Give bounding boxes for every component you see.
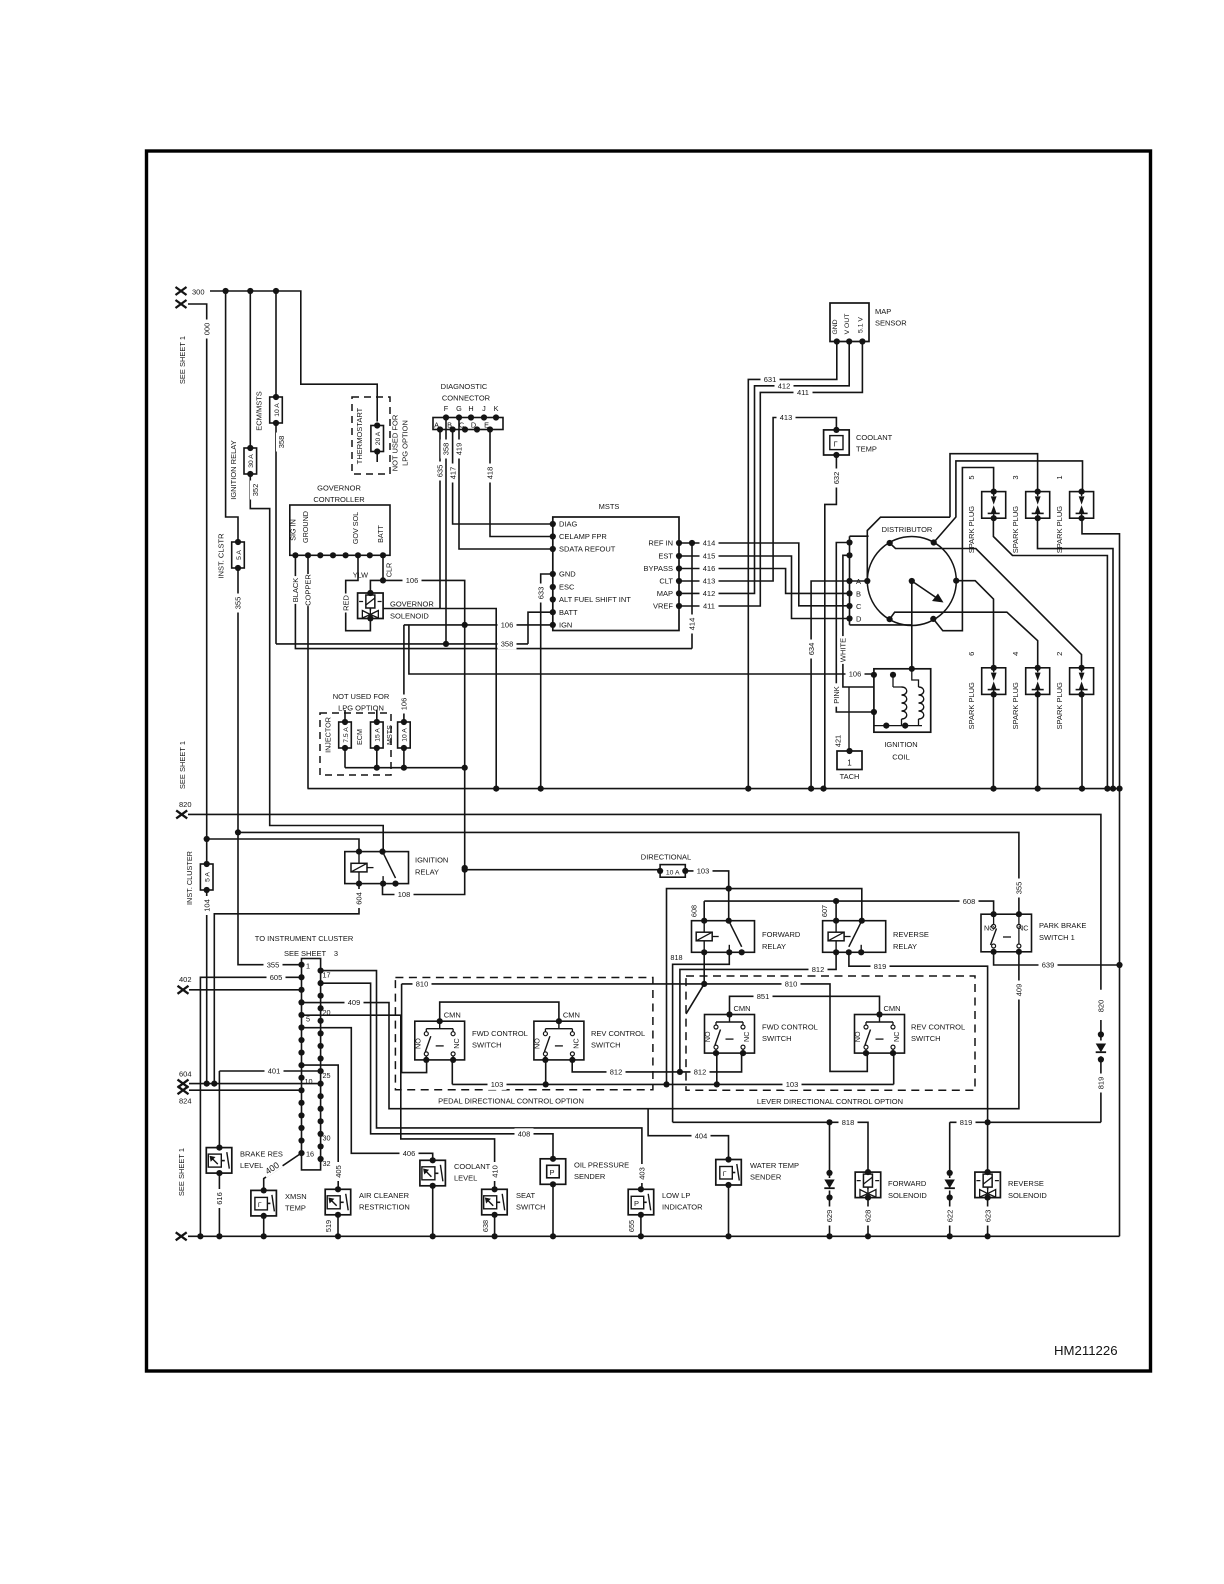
fuse 20 A thermostart	[371, 426, 384, 452]
svg-text:812: 812	[610, 1068, 623, 1077]
svg-text:414: 414	[703, 539, 716, 548]
dashed box lever directional control option	[686, 976, 975, 1090]
svg-text:B: B	[856, 590, 861, 599]
svg-text:BATT: BATT	[559, 608, 578, 617]
wire 631 map ground to bus	[748, 342, 837, 789]
svg-text:622: 622	[945, 1210, 954, 1223]
svg-text:OIL PRESSURE: OIL PRESSURE	[574, 1161, 629, 1170]
wire 639 park brake to ground	[994, 952, 1120, 965]
svg-text:FWD CONTROL: FWD CONTROL	[472, 1029, 528, 1038]
svg-text:LEVEL: LEVEL	[240, 1161, 263, 1170]
fuse 15 A ecm	[376, 710, 378, 722]
wire ignition relay feed	[249, 291, 251, 448]
wire spark plug 6 lead	[956, 581, 993, 668]
ground bus bottom	[188, 1235, 1120, 1237]
svg-text:TEMP: TEMP	[285, 1204, 306, 1213]
wire gov sol RED loop	[346, 555, 371, 630]
ignition relay	[345, 852, 409, 884]
wire 358 fuse drop	[275, 423, 277, 644]
svg-text:GOVERNOR: GOVERNOR	[317, 484, 361, 493]
node ground bus bottom X	[176, 1232, 187, 1240]
svg-text:YLW: YLW	[353, 571, 368, 580]
wire 406 pin 6 to coolant level	[302, 1028, 433, 1161]
svg-text:616: 616	[215, 1192, 224, 1205]
brake res level sensor	[206, 1148, 232, 1174]
governor solenoid	[358, 593, 384, 619]
svg-text:GND: GND	[559, 570, 576, 579]
svg-text:NO: NO	[984, 924, 995, 933]
msts pin REF IN	[676, 540, 682, 546]
svg-text:RELAY: RELAY	[415, 868, 439, 877]
svg-text:819: 819	[1097, 1077, 1106, 1090]
svg-text:ECM/MSTS: ECM/MSTS	[255, 391, 264, 431]
svg-text:INJECTOR: INJECTOR	[324, 717, 333, 753]
svg-text:CONTROLLER: CONTROLLER	[313, 495, 365, 504]
svg-text:415: 415	[703, 552, 716, 561]
wire 810 lever branch	[704, 984, 867, 1072]
wire xmsn temp ground	[263, 1216, 265, 1236]
msts pin VREF	[676, 603, 682, 609]
wire spark plug 1 ground	[1082, 518, 1120, 788]
svg-text:G: G	[456, 404, 462, 413]
wire 607 reverse coil drop	[835, 901, 837, 921]
svg-text:519: 519	[324, 1220, 333, 1232]
svg-text:HM211226: HM211226	[1054, 1343, 1118, 1358]
svg-text:SEE SHEET 1: SEE SHEET 1	[178, 336, 187, 384]
svg-text:AIR CLEANER: AIR CLEANER	[359, 1191, 410, 1200]
svg-text:403: 403	[638, 1167, 647, 1180]
svg-text:106: 106	[849, 670, 862, 679]
wire pedal 103	[451, 1060, 453, 1085]
svg-text:VREF: VREF	[653, 602, 673, 611]
svg-text:SWITCH: SWITCH	[472, 1041, 502, 1050]
svg-text:413: 413	[780, 413, 793, 422]
svg-text:401: 401	[268, 1067, 281, 1076]
svg-text:409: 409	[348, 998, 361, 1007]
svg-text:358: 358	[277, 436, 286, 449]
svg-text:2: 2	[1055, 652, 1064, 656]
svg-text:TACH: TACH	[840, 772, 860, 781]
svg-text:CELAMP FPR: CELAMP FPR	[559, 532, 607, 541]
wire spark plug 1 lead	[934, 461, 1083, 543]
msts pin MAP	[676, 590, 682, 596]
wire 819 run	[950, 1121, 1101, 1123]
svg-text:SENDER: SENDER	[750, 1173, 782, 1182]
svg-text:16: 16	[306, 1150, 314, 1159]
tach connector	[837, 751, 862, 770]
svg-text:NC: NC	[1018, 924, 1028, 933]
svg-text:BLACK: BLACK	[291, 578, 300, 603]
svg-text:SOLENOID: SOLENOID	[390, 612, 429, 621]
msts pin CLT	[676, 578, 682, 584]
svg-text:629: 629	[825, 1210, 834, 1223]
msts controller box	[553, 517, 679, 631]
seat switch sensor	[482, 1189, 508, 1215]
svg-text:106: 106	[406, 576, 419, 585]
svg-text:ECM: ECM	[355, 729, 364, 745]
wire 820 diode to 819	[1100, 1020, 1102, 1122]
svg-text:DIAGNOSTIC: DIAGNOSTIC	[441, 382, 488, 391]
svg-text:COPPER: COPPER	[304, 574, 313, 606]
svg-text:D: D	[856, 615, 862, 624]
wire 300 bus to thermostart	[210, 291, 377, 422]
wire 103 branch to switches	[667, 889, 729, 1085]
park brake switch 1	[981, 914, 1032, 952]
wire 810 pedal branch	[402, 984, 705, 1073]
svg-text:PARK BRAKE: PARK BRAKE	[1039, 921, 1086, 930]
svg-text:417: 417	[448, 467, 457, 480]
wire 106 ign run	[404, 624, 553, 626]
wire 410 pin 5 to seat switch	[302, 1015, 495, 1189]
fuse 30 A ignition relay	[244, 448, 257, 474]
to instrument cluster connector	[302, 959, 321, 1170]
svg-text:413: 413	[703, 577, 716, 586]
svg-text:410: 410	[490, 1165, 499, 1178]
reverse relay	[823, 921, 886, 953]
fuse 10 A ecm/msts	[270, 397, 283, 423]
diagnostic connector	[433, 418, 503, 430]
msts pin GND	[550, 571, 556, 577]
svg-text:NO: NO	[853, 1031, 862, 1042]
ground bus engine	[308, 788, 1120, 790]
svg-text:EST: EST	[658, 552, 673, 561]
svg-text:CLR: CLR	[385, 563, 394, 578]
msts pin BYPASS	[676, 565, 682, 571]
wire spark plug 5 ground	[993, 518, 1107, 788]
wire ecm/msts feed	[275, 291, 277, 397]
svg-text:BYPASS: BYPASS	[644, 564, 673, 573]
svg-text:F: F	[444, 404, 449, 413]
wire 616 brake res ground	[218, 1173, 220, 1236]
svg-text:404: 404	[695, 1131, 708, 1140]
svg-text:5 A: 5 A	[205, 872, 212, 882]
wire 405 pin 9 to air cleaner	[302, 1065, 339, 1189]
svg-text:32: 32	[323, 1159, 331, 1168]
svg-text:BATT: BATT	[376, 524, 385, 542]
wire 000 / 104 instrument cluster feed	[188, 304, 207, 864]
svg-text:SWITCH: SWITCH	[591, 1041, 621, 1050]
svg-text:LOW LP: LOW LP	[662, 1191, 690, 1200]
node 824 off-sheet X	[178, 1086, 189, 1094]
svg-text:411: 411	[703, 602, 715, 611]
svg-text:H: H	[468, 404, 473, 413]
svg-text:608: 608	[963, 897, 976, 906]
fwd control switch (pedal)	[415, 1021, 465, 1060]
msts pin CELAMP FPR	[550, 533, 556, 539]
diode 629 branch	[829, 1122, 831, 1236]
wire spark plug 4 lead	[890, 612, 1038, 668]
svg-text:4: 4	[1011, 652, 1020, 656]
wire lever rev nc to 103	[893, 1053, 895, 1084]
svg-text:CMN: CMN	[734, 1004, 751, 1013]
svg-text:CMN: CMN	[444, 1011, 461, 1020]
svg-text:633: 633	[536, 587, 545, 600]
wire 104 to ignition relay coil	[207, 839, 359, 852]
svg-text:CLT: CLT	[659, 577, 673, 586]
svg-text:628: 628	[864, 1210, 873, 1223]
wire 413 clt to coolant temp	[679, 418, 836, 582]
svg-text:418: 418	[486, 467, 495, 480]
coil internal wiring	[893, 669, 919, 687]
svg-text:INST. CLSTR: INST. CLSTR	[217, 533, 226, 579]
wire 818 run to forward solenoid	[673, 1122, 868, 1172]
coolant level sensor	[420, 1160, 446, 1186]
svg-text:10: 10	[305, 1077, 313, 1086]
svg-text:J: J	[482, 404, 486, 413]
wire 415 est to distributor D	[679, 556, 850, 619]
svg-text:812: 812	[694, 1068, 707, 1077]
svg-text:605: 605	[270, 973, 283, 982]
wire spark plug 4 ground	[1037, 694, 1039, 788]
svg-text:CMN: CMN	[884, 1004, 901, 1013]
wire 400 xmsn temp to pin 16	[264, 1153, 302, 1190]
fwd control switch (lever)	[705, 1015, 755, 1054]
svg-text:CMN: CMN	[563, 1011, 580, 1020]
wire 409 park brake NC	[302, 952, 1019, 1109]
svg-text:IGNITION: IGNITION	[415, 856, 448, 865]
wire pedal rev no to 103	[545, 1060, 547, 1085]
svg-text:103: 103	[697, 867, 710, 876]
wire 418 pin E to msts celamp	[490, 430, 553, 537]
svg-text:SPARK PLUG: SPARK PLUG	[1011, 506, 1020, 554]
svg-text:355: 355	[267, 960, 280, 969]
wire 411 vref	[679, 342, 862, 607]
svg-text:3: 3	[334, 949, 338, 958]
svg-text:635: 635	[436, 465, 445, 478]
svg-text:358: 358	[442, 443, 451, 456]
wire 628 forward solenoid ground	[867, 1198, 869, 1237]
svg-text:NC: NC	[571, 1038, 580, 1048]
wire governor solenoid ground	[383, 609, 496, 789]
msts pin IGN	[550, 622, 556, 628]
svg-text:NC: NC	[892, 1032, 901, 1042]
svg-text:1: 1	[306, 962, 310, 971]
wire msts gnd 633 to bus	[541, 574, 553, 789]
svg-text:SEAT: SEAT	[516, 1191, 535, 1200]
svg-text:632: 632	[832, 472, 841, 485]
svg-text:820: 820	[179, 800, 192, 809]
svg-text:IGNITION RELAY: IGNITION RELAY	[229, 440, 238, 499]
wire 820 bus	[188, 814, 1101, 989]
wire oil pressure ground	[552, 1184, 554, 1236]
fuse 5 A inst clstr	[232, 542, 245, 568]
svg-text:NO: NO	[532, 1038, 541, 1049]
wire 108 relay output loop	[383, 870, 465, 895]
svg-text:818: 818	[842, 1118, 855, 1127]
svg-text:XMSN: XMSN	[285, 1192, 307, 1201]
svg-text:819: 819	[960, 1118, 973, 1127]
svg-text:NOT USED FOR: NOT USED FOR	[391, 414, 400, 471]
svg-text:K: K	[494, 404, 499, 413]
wire 412 map signal	[679, 342, 849, 594]
svg-text:607: 607	[820, 905, 829, 917]
spark plug 5	[982, 492, 1006, 519]
svg-text:SWITCH: SWITCH	[911, 1034, 941, 1043]
svg-text:DIRECTIONAL: DIRECTIONAL	[641, 853, 691, 862]
wire spark plug 2 ground	[1081, 694, 1083, 788]
svg-text:ALT FUEL SHIFT INT: ALT FUEL SHIFT INT	[559, 595, 631, 604]
svg-text:COIL: COIL	[892, 753, 910, 762]
svg-text:NO: NO	[413, 1038, 422, 1049]
distributor module box	[850, 536, 912, 625]
svg-text:103: 103	[491, 1080, 504, 1089]
svg-text:810: 810	[785, 980, 798, 989]
map sensor	[830, 303, 869, 342]
svg-text:6: 6	[967, 652, 976, 656]
wire lever option diagonal	[686, 984, 704, 1014]
svg-text:Γ: Γ	[834, 440, 838, 449]
svg-text:SOLENOID: SOLENOID	[1008, 1191, 1047, 1200]
svg-text:355: 355	[1015, 882, 1024, 895]
svg-text:IGN: IGN	[559, 621, 572, 630]
svg-text:820: 820	[1097, 1000, 1106, 1013]
svg-text:SPARK PLUG: SPARK PLUG	[1011, 682, 1020, 730]
svg-text:30 A: 30 A	[248, 454, 255, 468]
svg-text:TEMP: TEMP	[856, 445, 877, 454]
dashed box not used for LPG option (injector/ecm fuses)	[320, 713, 391, 775]
svg-text:SEE SHEET 1: SEE SHEET 1	[178, 741, 187, 789]
svg-text:300: 300	[192, 288, 205, 297]
wire 604 relay coil return	[214, 884, 359, 1084]
svg-text:Γ: Γ	[258, 1202, 262, 1209]
svg-text:SPARK PLUG: SPARK PLUG	[1055, 506, 1064, 554]
wire 818 forward relay output	[673, 952, 730, 1122]
svg-text:SEE SHEET: SEE SHEET	[284, 949, 327, 958]
svg-text:GOV SOL: GOV SOL	[351, 512, 360, 544]
svg-text:608: 608	[690, 905, 699, 917]
svg-text:P: P	[550, 1168, 555, 1177]
low lp indicator	[628, 1189, 654, 1215]
wire 402 to pin 3	[189, 989, 302, 991]
diode 622 branch	[949, 1122, 951, 1236]
svg-text:SEE SHEET 1: SEE SHEET 1	[177, 1148, 186, 1196]
svg-text:TO INSTRUMENT CLUSTER: TO INSTRUMENT CLUSTER	[255, 934, 354, 943]
distributor cap circle	[867, 537, 956, 626]
svg-text:604: 604	[179, 1070, 192, 1079]
wire 419 pin G to msts sdata	[459, 418, 553, 550]
wire WHITE	[843, 555, 850, 687]
svg-text:414: 414	[688, 618, 697, 631]
wire 358 run	[276, 643, 528, 645]
svg-text:25: 25	[323, 1071, 331, 1080]
svg-text:INST. CLUSTER: INST. CLUSTER	[185, 851, 194, 905]
water temp sender	[716, 1160, 742, 1186]
rev control switch (lever)	[855, 1015, 905, 1054]
svg-text:IGNITION: IGNITION	[884, 740, 917, 749]
wire 604 to pin 26	[189, 1083, 321, 1085]
wire 106 msts fuse riser	[403, 625, 405, 722]
svg-text:WATER TEMP: WATER TEMP	[750, 1161, 799, 1170]
svg-text:402: 402	[179, 975, 192, 984]
svg-text:SOLENOID: SOLENOID	[888, 1191, 927, 1200]
svg-text:409: 409	[1015, 984, 1024, 997]
svg-text:DISTRIBUTOR: DISTRIBUTOR	[882, 525, 933, 534]
wire BLACK 414 sig in to msts ref in return	[295, 555, 692, 648]
wire YLW solenoid top link	[370, 580, 383, 593]
wire water temp ground	[728, 1185, 730, 1236]
spark plug 1	[1070, 492, 1094, 519]
wire 106 ignition coil feed	[409, 625, 874, 674]
wire 417 pin B to msts diag	[453, 430, 553, 525]
svg-text:FORWARD: FORWARD	[888, 1179, 927, 1188]
svg-text:NC: NC	[742, 1032, 751, 1042]
svg-text:1: 1	[847, 759, 852, 768]
coolant temp sensor	[824, 430, 850, 455]
wire 355 to cluster connector pin 1	[238, 568, 302, 965]
svg-text:5: 5	[967, 476, 976, 480]
forward relay	[692, 921, 755, 953]
svg-text:BRAKE RES: BRAKE RES	[240, 1150, 283, 1159]
wire 358 pin F	[445, 418, 447, 644]
wire 812 lever fwd nc	[680, 1053, 742, 1072]
fuse 5 A inst cluster	[200, 864, 213, 890]
wire 655 low lp ground	[640, 1215, 642, 1237]
svg-text:FORWARD: FORWARD	[762, 930, 801, 939]
wire 638 seat switch ground	[494, 1215, 496, 1237]
svg-text:638: 638	[481, 1220, 490, 1232]
svg-text:RELAY: RELAY	[762, 942, 786, 951]
governor controller box	[290, 505, 390, 555]
msts pin EST	[676, 553, 682, 559]
svg-text:LEVEL: LEVEL	[454, 1174, 477, 1183]
svg-text:416: 416	[703, 564, 716, 573]
msts pin BATT	[550, 609, 556, 615]
rotor arrow	[912, 581, 936, 598]
svg-text:MSTS: MSTS	[599, 502, 620, 511]
svg-text:COOLANT: COOLANT	[856, 433, 893, 442]
rev control switch (pedal)	[534, 1021, 584, 1060]
dashed box pedal directional control option	[395, 978, 653, 1090]
msts pin ALT FUEL SHIFT INT	[550, 596, 556, 602]
wire 819 reverse relay output	[849, 952, 988, 1172]
svg-text:1: 1	[1055, 476, 1064, 480]
fuse 7.5 A injector	[344, 710, 346, 722]
svg-text:408: 408	[518, 1130, 531, 1139]
svg-text:MSTS: MSTS	[385, 725, 394, 745]
wire 851 lever cmn bridge	[730, 996, 880, 1014]
svg-text:000: 000	[202, 323, 211, 336]
wire 352	[250, 474, 383, 852]
svg-text:20 A: 20 A	[375, 431, 382, 445]
svg-text:634: 634	[807, 643, 816, 656]
wire msts fuse output to relay 106 node	[345, 767, 465, 769]
node 300 off-sheet X	[176, 287, 187, 295]
svg-text:358: 358	[501, 640, 514, 649]
border frame	[147, 151, 1151, 1371]
svg-text:412: 412	[703, 589, 716, 598]
wire 605 pin 2	[200, 977, 301, 1236]
wire 623 reverse solenoid ground	[987, 1198, 989, 1237]
svg-text:LPG OPTION: LPG OPTION	[401, 420, 410, 466]
svg-text:PEDAL DIRECTIONAL CONTROL OPTI: PEDAL DIRECTIONAL CONTROL OPTION	[438, 1097, 584, 1106]
svg-text:106: 106	[400, 698, 409, 711]
svg-text:ESC: ESC	[559, 583, 575, 592]
svg-text:RESTRICTION: RESTRICTION	[359, 1203, 410, 1212]
wire relay output to directional fuse	[465, 869, 660, 871]
svg-text:REF IN: REF IN	[648, 539, 673, 548]
dashed box not used for LPG option (thermostart)	[352, 397, 390, 474]
svg-text:MAP: MAP	[657, 589, 673, 598]
svg-text:C: C	[856, 602, 862, 611]
svg-text:SENSOR: SENSOR	[875, 319, 907, 328]
node 820 off-sheet X	[176, 810, 187, 818]
svg-text:REV CONTROL: REV CONTROL	[591, 1029, 645, 1038]
svg-text:5 A: 5 A	[236, 550, 243, 560]
svg-text:COOLANT: COOLANT	[454, 1162, 491, 1171]
wire ground wrap right side	[1119, 789, 1121, 1237]
wire COPPER ground to ground bus	[307, 555, 309, 788]
svg-text:411: 411	[797, 388, 809, 397]
